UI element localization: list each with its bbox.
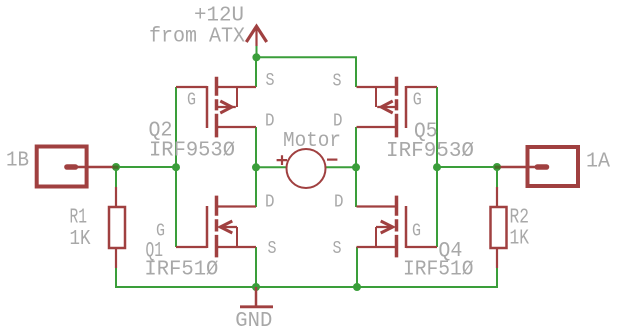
resistor R1 [109,187,125,268]
svg-text:Motor: Motor [283,130,341,153]
svg-text:IRF51Ø: IRF51Ø [403,259,474,282]
svg-text:S: S [266,71,275,91]
svg-text:1B: 1B [6,150,29,173]
wire left gate column Q2 gate to Q1 gate [175,87,177,247]
svg-text:D: D [333,112,343,132]
svg-text:IRF953Ø: IRF953Ø [386,140,474,163]
wire +12V down to Q2 source [255,57,257,87]
svg-text:G: G [187,91,196,111]
resistor R2 [491,187,507,268]
transistor Q1 IRF510 N-MOSFET bottom-left [176,196,256,258]
wire motor left lead [256,166,287,168]
junction node 1A / R2 [493,163,501,171]
junction node right gates [433,163,441,171]
junction node motor left [252,163,260,171]
svg-text:S: S [333,239,342,259]
junction node ground left [252,283,260,291]
svg-text:S: S [333,72,342,92]
wire Q1 source to ground rail [255,247,257,287]
wire 1B node down to R1 [115,167,117,187]
junction node left gates [172,163,180,171]
svg-text:+12U: +12U [194,5,244,28]
svg-text:D: D [334,192,344,212]
junction node 1B / R1 [112,163,120,171]
transistor Q4 IRF510 N-MOSFET bottom-right [357,196,438,258]
svg-text:GND: GND [235,310,272,333]
wire Q4 source to ground rail [356,247,358,287]
transistor Q2 IRF9530 P-MOSFET top-left [176,77,256,138]
svg-text:from ATX: from ATX [149,26,245,49]
junction node at +12V [252,53,260,61]
connector 1B [37,147,119,187]
svg-text:1K: 1K [70,228,91,251]
svg-text:R1: R1 [70,206,88,229]
transistor Q5 IRF9530 P-MOSFET top-right [357,77,438,138]
svg-text:G: G [413,91,422,111]
wire motor right lead [326,166,357,168]
wire bottom ground rail R1 to R2 [116,268,497,287]
wire 1A node down to R2 [496,167,498,187]
wire right drain column Q5 drain to Q4 drain [355,127,357,207]
svg-text:G: G [412,222,421,242]
wire net 1A from right gate column to connector [437,166,497,168]
motor M1 [277,149,338,188]
svg-text:G: G [156,222,165,242]
svg-text:S: S [268,239,277,259]
wire net 1B from connector to left gate column [116,166,176,168]
svg-text:D: D [265,112,275,132]
svg-text:IRF51Ø: IRF51Ø [144,259,218,282]
svg-text:R2: R2 [510,206,530,229]
wire right gate column Q5 gate to Q4 gate [436,87,438,247]
svg-text:IRF953Ø: IRF953Ø [149,140,235,163]
wire left drain column Q2 drain to Q1 drain [255,127,257,207]
svg-text:1K: 1K [510,228,530,251]
junction node ground right [353,283,361,291]
svg-text:1A: 1A [586,151,610,174]
junction node motor right [352,163,360,171]
power symbol +12V arrow [246,26,266,46]
ground symbol GND [240,287,273,307]
wire +12V rail from arrow to Q5 source corner [257,46,357,88]
svg-text:D: D [265,192,275,212]
connector 1A [495,147,579,186]
